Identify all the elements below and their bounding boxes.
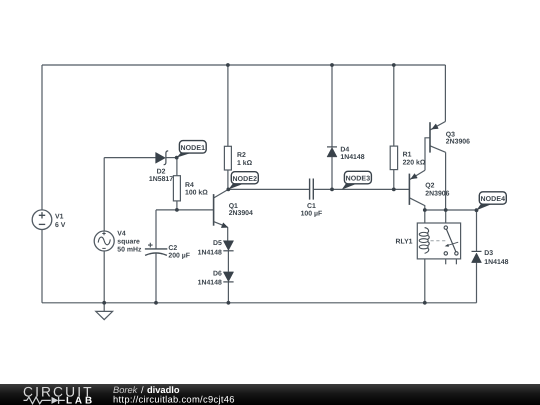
wire node A down to R4 bbox=[176, 158, 178, 176]
voltage source V1 circle bbox=[32, 210, 52, 230]
svg-text:D3: D3 bbox=[484, 250, 493, 257]
wire R1 bottom bbox=[393, 170, 395, 190]
logo diode bbox=[52, 397, 59, 404]
wire R2 bottom to node NODE2 bbox=[227, 170, 229, 189]
node junction top rail R1 bbox=[392, 63, 396, 67]
node label NODE2 bbox=[229, 184, 244, 190]
diode D3 bbox=[472, 253, 482, 263]
wire Q3 collector drop bbox=[445, 152, 447, 210]
svg-text:R4: R4 bbox=[185, 182, 194, 189]
svg-text:200 µF: 200 µF bbox=[168, 252, 190, 259]
RLY1 switch blade bbox=[446, 229, 456, 252]
wire NODE2 to C1 bbox=[228, 188, 310, 190]
node label NODE3 bbox=[342, 184, 357, 190]
svg-text:220 kΩ: 220 kΩ bbox=[403, 159, 426, 166]
svg-text:R2: R2 bbox=[237, 152, 246, 159]
svg-text:C2: C2 bbox=[168, 245, 177, 252]
node label NODE1 bbox=[177, 153, 193, 158]
wire Q1 emitter to D5 bbox=[227, 227, 229, 241]
node junction D4 bottom bbox=[330, 188, 334, 192]
wire Q3 emitter diagonal bbox=[430, 122, 445, 130]
wire V4 to D2 horizontal bbox=[104, 157, 155, 159]
V1 minus sign bbox=[39, 223, 45, 225]
wire Q2 emitter diagonal bbox=[409, 170, 425, 180]
svg-text:square: square bbox=[117, 239, 140, 246]
svg-text:C1: C1 bbox=[307, 203, 316, 210]
svg-text:Q2: Q2 bbox=[425, 183, 434, 190]
wire Q1 emitter diagonal bbox=[214, 222, 228, 228]
wire V4 branch vertical lower bbox=[103, 251, 105, 303]
wire C2 bottom vertical bbox=[155, 253, 157, 303]
node junction R4 bottom bbox=[175, 208, 179, 212]
svg-text:V4: V4 bbox=[117, 231, 126, 238]
wire Q3 emitter feed from top rail bbox=[444, 65, 446, 122]
wire C2 to Q1 base horizontal bbox=[156, 209, 214, 211]
svg-text:2N3906: 2N3906 bbox=[425, 191, 449, 198]
RLY1 coil bbox=[425, 228, 430, 254]
wire R4 bottom to base rail bbox=[176, 201, 178, 210]
wire Q3 collector diagonal bbox=[430, 146, 446, 153]
ground symbol bbox=[103, 303, 105, 312]
wire R2 top bbox=[227, 65, 229, 146]
node junction relay coil bottom bbox=[423, 301, 427, 305]
svg-text:NODE1: NODE1 bbox=[180, 145, 205, 152]
svg-text:2N3906: 2N3906 bbox=[446, 138, 470, 145]
svg-text:NODE3: NODE3 bbox=[346, 176, 371, 183]
node junction D6 bottom bbox=[227, 301, 231, 305]
svg-text:1N5817: 1N5817 bbox=[149, 176, 173, 183]
svg-text:http://circuitlab.com/c9cjt46: http://circuitlab.com/c9cjt46 bbox=[113, 394, 235, 405]
capacitor C1 bbox=[310, 179, 314, 200]
wire Q1 collector diagonal bbox=[214, 190, 228, 198]
C2 plus sign bbox=[148, 243, 153, 248]
wire D3 bottom bbox=[476, 263, 478, 303]
node junction NODE2 bbox=[226, 188, 230, 192]
svg-text:50 mHz: 50 mHz bbox=[117, 247, 142, 254]
wire relay coil feed bbox=[424, 210, 426, 228]
wire left rail lower (V1 bottom) bbox=[41, 229, 43, 302]
svg-text:R1: R1 bbox=[403, 152, 412, 159]
svg-text:100 µF: 100 µF bbox=[301, 210, 323, 217]
transistor Q3 base bar bbox=[429, 122, 431, 152]
V4 sine wave bbox=[98, 237, 110, 245]
wire top rail bbox=[42, 64, 445, 66]
V1 plus sign bbox=[39, 212, 45, 218]
wire D3 top bbox=[476, 210, 478, 251]
wire D5 to D6 bbox=[227, 251, 229, 272]
svg-text:6 V: 6 V bbox=[55, 222, 66, 229]
diode D6 bbox=[223, 272, 233, 282]
svg-text:NODE4: NODE4 bbox=[480, 196, 505, 203]
svg-text:D2: D2 bbox=[157, 168, 166, 175]
node junction NODE1/R4 bbox=[175, 156, 179, 160]
wire D2 cathode to node A bbox=[166, 157, 177, 159]
V4 plus sign bbox=[102, 232, 105, 235]
logo resistor zigzag bbox=[24, 397, 51, 404]
node junction C2 bottom bbox=[154, 301, 158, 305]
node junction ground bbox=[102, 301, 106, 305]
wire D4 top bbox=[331, 65, 333, 147]
node junction R1 bottom bbox=[392, 188, 396, 192]
diode D2 (schottky) bbox=[156, 152, 166, 163]
svg-text:NODE2: NODE2 bbox=[232, 176, 257, 183]
transistor Q2 base bar bbox=[408, 174, 410, 205]
diode D5 bbox=[223, 241, 233, 251]
RLY1 actuator arrow bbox=[447, 242, 458, 245]
voltage source V4 circle bbox=[94, 231, 114, 251]
wire relay pin stub left bbox=[445, 255, 447, 264]
svg-text:1 kΩ: 1 kΩ bbox=[237, 160, 253, 167]
V4 minus sign bbox=[102, 247, 105, 249]
svg-text:D6: D6 bbox=[213, 270, 222, 277]
svg-text:D4: D4 bbox=[340, 147, 349, 154]
resistor R2 bbox=[224, 146, 231, 170]
wire D4 bottom bbox=[331, 157, 333, 190]
svg-text:1N4148: 1N4148 bbox=[484, 259, 508, 266]
wire C1 to Q2 base bbox=[313, 188, 409, 190]
wire relay pin stub right bbox=[455, 255, 457, 264]
resistor R1 bbox=[390, 146, 397, 170]
transistor Q1 base bar bbox=[213, 194, 215, 226]
svg-text:1N4148: 1N4148 bbox=[198, 249, 222, 256]
diode D4 bbox=[327, 148, 337, 157]
transistor Q1 emitter arrow bbox=[221, 223, 228, 228]
node junction Q3 collector / switch bbox=[444, 208, 448, 212]
node junction Q2 collector / coil bbox=[423, 208, 427, 212]
wire C2 top vertical bbox=[155, 210, 157, 249]
wire bottom rail bbox=[42, 302, 477, 304]
transistor Q2 emitter arrow bbox=[411, 174, 418, 179]
relay RLY1 box bbox=[417, 223, 460, 259]
wire left rail upper (V1 top) bbox=[41, 65, 43, 210]
resistor R4 bbox=[173, 176, 180, 201]
wire V4 branch vertical upper bbox=[103, 158, 105, 232]
svg-text:1N4148: 1N4148 bbox=[198, 279, 222, 286]
capacitor C2 (polarized) bbox=[145, 248, 167, 250]
wire D6 to ground rail bbox=[227, 282, 229, 303]
svg-text:100 kΩ: 100 kΩ bbox=[185, 190, 208, 197]
wire Q2 collector diagonal bbox=[409, 198, 424, 210]
node label NODE4 bbox=[477, 204, 492, 210]
node junction top rail D4 bbox=[330, 63, 334, 67]
svg-text:RLY1: RLY1 bbox=[396, 239, 413, 246]
svg-text:D5: D5 bbox=[213, 240, 222, 247]
svg-text:2N3904: 2N3904 bbox=[229, 210, 253, 217]
svg-text:V1: V1 bbox=[55, 214, 64, 221]
wire R1 top bbox=[393, 65, 395, 146]
wire Q3 base to Q2 emitter link bbox=[425, 138, 430, 171]
RLY1 switch contacts bbox=[444, 226, 447, 229]
svg-text:1N4148: 1N4148 bbox=[340, 154, 364, 161]
wire relay output rail bbox=[425, 209, 477, 211]
RLY1 dashed linkage bbox=[431, 240, 448, 242]
transistor Q3 emitter arrow bbox=[432, 124, 439, 129]
svg-text:LAB: LAB bbox=[66, 396, 95, 405]
wire relay switch top pin bbox=[445, 210, 447, 226]
wire relay coil bottom to ground rail bbox=[424, 253, 426, 302]
node junction top rail R2 bbox=[226, 63, 230, 67]
node junction NODE4 bbox=[475, 208, 479, 212]
